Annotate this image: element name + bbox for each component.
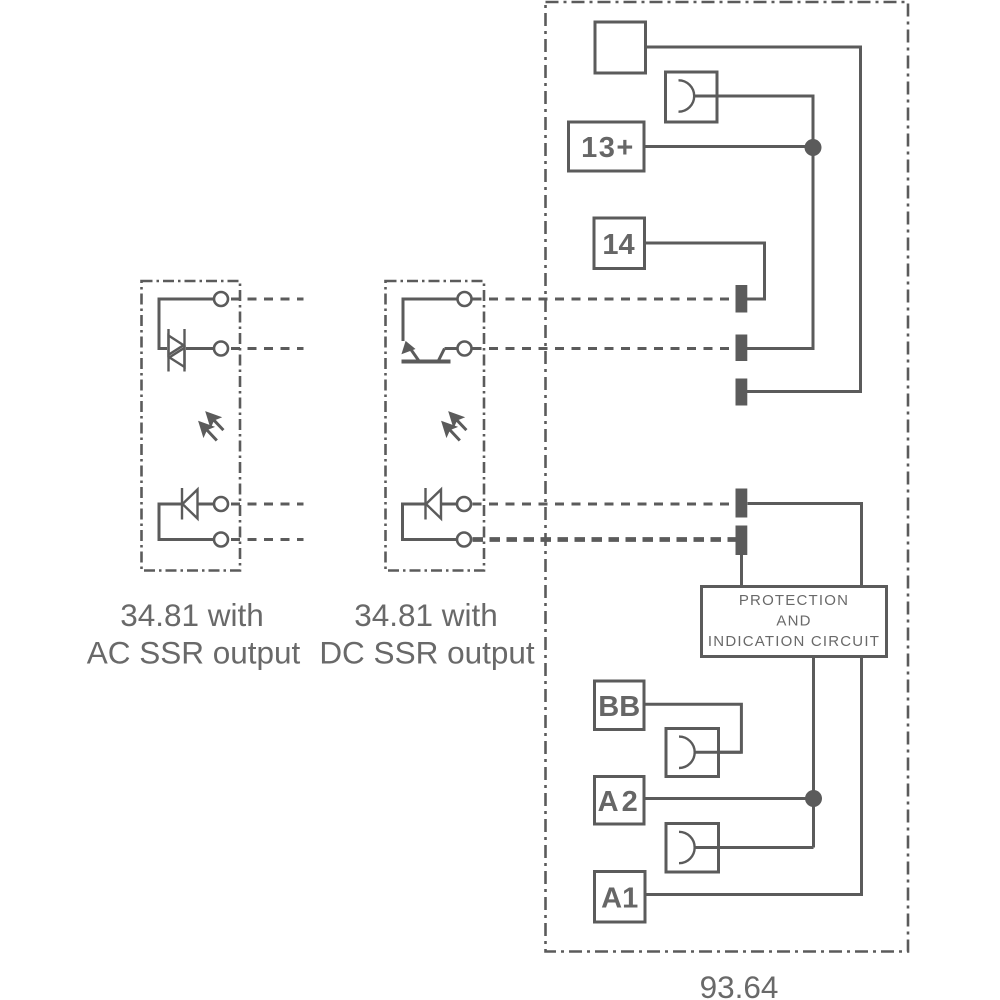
svg-text:DC SSR output: DC SSR output	[319, 635, 535, 671]
svg-text:AND: AND	[776, 613, 811, 630]
svg-text:A2: A2	[598, 786, 641, 818]
svg-text:93.64: 93.64	[700, 969, 779, 1000]
svg-text:A1: A1	[601, 883, 638, 915]
svg-text:14: 14	[602, 229, 634, 261]
svg-text:13+: 13+	[581, 132, 635, 164]
svg-text:34.81 with: 34.81 with	[120, 597, 264, 633]
svg-text:BB: BB	[598, 691, 640, 723]
svg-text:AC SSR output: AC SSR output	[87, 635, 301, 671]
svg-text:PROTECTION: PROTECTION	[739, 592, 849, 609]
svg-text:INDICATION CIRCUIT: INDICATION CIRCUIT	[708, 633, 880, 650]
svg-text:34.81 with: 34.81 with	[354, 597, 498, 633]
